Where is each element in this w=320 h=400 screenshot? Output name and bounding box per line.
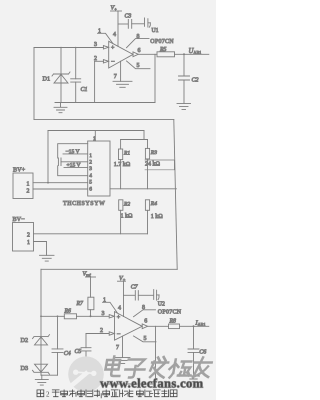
capacitor C6 (193, 326, 195, 349)
wire: top input bus to pin 3 (34, 47, 103, 49)
svg-text:V+: V+ (119, 276, 126, 282)
capacitor C7 (124, 294, 135, 296)
watermark char 2 (zi) (124, 360, 146, 378)
zener diode D3 (35, 364, 48, 372)
svg-text:D3: D3 (21, 365, 29, 372)
node: R7 junction (90, 315, 92, 317)
pin 7 stub (122, 336, 124, 357)
wire: bottom edge of input loop (34, 119, 174, 121)
svg-text:OP07CN: OP07CN (158, 310, 182, 316)
svg-text:R4: R4 (150, 201, 157, 207)
wire: riser to box top (47, 131, 49, 183)
wire: pin 2 input (86, 333, 109, 335)
capacitor C5 (feedback) (85, 334, 87, 348)
caption: figure 2 battery current and voltage detection circuit (37, 390, 177, 399)
wire: left edge of input loop (33, 48, 35, 120)
svg-text:1: 1 (98, 29, 101, 35)
wire: feed to divider R1 R3 (121, 131, 148, 140)
wire: R1 bottom to mid rail (120, 160, 122, 189)
svg-text:2: 2 (46, 391, 50, 399)
wire: left vertical (40, 269, 42, 336)
svg-text:1.7 kΩ: 1.7 kΩ (114, 162, 131, 168)
svg-text:−: − (111, 59, 115, 66)
svg-text:R2: R2 (123, 201, 130, 207)
wire: R4 bottom (147, 210, 149, 234)
svg-text:1 kΩ: 1 kΩ (121, 213, 134, 219)
wire: R7 to input node (90, 310, 92, 317)
svg-text:OP07CN: OP07CN (150, 39, 174, 45)
ground (U1 pin 7) (113, 81, 132, 87)
svg-text:2: 2 (89, 160, 92, 166)
pin 8 stub (134, 310, 156, 317)
watermark char 5 (you) (192, 358, 212, 378)
wire: pin 6 to R8 (148, 325, 169, 327)
svg-text:3: 3 (102, 311, 105, 317)
wire: BV- pin 2 bus (34, 233, 148, 235)
capacitor C1 (75, 48, 77, 79)
node: BV+ tap (47, 182, 49, 184)
connector BV- (13, 223, 34, 252)
pin 4 supply stub (117, 11, 119, 46)
wire: R5 to output terminal (175, 53, 209, 55)
wire: mid rail right of chip (110, 188, 176, 190)
node: D1 tap (60, 47, 62, 49)
wire: R6 to pin 3 (77, 315, 110, 317)
power terminal V+ (118, 280, 126, 282)
inner supply box (58, 144, 88, 176)
wire: ground / feedback bus under D1 C1 (55, 102, 155, 104)
svg-text:THCHSYSYW: THCHSYSYW (63, 201, 105, 207)
svg-text:4: 4 (113, 32, 116, 38)
svg-text:5: 5 (144, 336, 147, 342)
node: C1 tap (75, 47, 77, 49)
svg-text:5: 5 (137, 63, 140, 69)
svg-text:1: 1 (27, 181, 30, 187)
zener diode D1 (60, 48, 62, 103)
ground (D3) (35, 375, 48, 385)
resistor R6 (64, 314, 76, 319)
pin 4 supply stub (123, 281, 125, 316)
resistor R1 (119, 149, 123, 160)
svg-text:+: + (111, 46, 115, 52)
capacitor (supply decoupling) (58, 158, 61, 166)
svg-text:2: 2 (100, 328, 103, 334)
wire: pin 6 to R5 (138, 53, 157, 55)
ADC chip U3 (88, 141, 110, 196)
ground (under C2) (177, 103, 191, 109)
svg-text:6: 6 (89, 186, 92, 192)
output arrow pin 6 (133, 52, 138, 57)
node: output junction (193, 325, 195, 327)
zener diode D2 (33, 335, 50, 339)
svg-text:2: 2 (27, 189, 30, 195)
pin 1 stub (103, 302, 118, 313)
wire: chip top pin (94, 131, 96, 142)
capacitor C4 (57, 316, 59, 349)
svg-text:D1: D1 (43, 76, 51, 83)
connector BV+ (13, 173, 33, 199)
wire: R2 bottom (120, 210, 122, 234)
ground (BV-) (40, 255, 55, 261)
svg-text:www.elecfans.com: www.elecfans.com (100, 377, 204, 391)
svg-text:−: − (117, 331, 121, 338)
op-amp U2 (115, 312, 143, 341)
svg-text:UAB1: UAB1 (189, 48, 202, 55)
svg-text:3: 3 (89, 166, 92, 172)
svg-text:IAB1: IAB1 (195, 319, 206, 326)
svg-text:C2: C2 (192, 77, 199, 83)
svg-text:6: 6 (144, 318, 147, 324)
svg-text:+: + (117, 315, 121, 321)
svg-text:1: 1 (103, 298, 106, 304)
resistor R5 (157, 52, 175, 57)
svg-text:7: 7 (114, 74, 117, 80)
watermark char 3 (fa) (149, 357, 169, 378)
power terminal V+ (111, 10, 122, 12)
resistor R8 (169, 324, 180, 329)
ground (U2 pin 7) (115, 357, 130, 363)
svg-text:R7: R7 (76, 301, 85, 307)
node: pin 3 input arrow (109, 315, 114, 318)
wire: input to R6 (41, 315, 64, 317)
wire: box top edge (48, 130, 144, 132)
svg-text:C5: C5 (75, 349, 82, 355)
pin 7 stub (120, 61, 122, 81)
pin 5 stub (134, 336, 157, 342)
wire: +15V to chip pin 3 (64, 166, 88, 168)
wire: cap to chip pin 2 (61, 161, 88, 163)
wire: feedback from pin 2 (94, 61, 96, 102)
wire: R3 bottom to mid rail (147, 159, 149, 189)
capacitor (supply, unlabeled) (145, 18, 148, 27)
wire: feedback riser to output (154, 54, 156, 102)
svg-text:C6: C6 (199, 350, 206, 356)
svg-text:1 kΩ: 1 kΩ (151, 214, 164, 220)
wire: feedback bottom rail (86, 383, 156, 385)
wire: top rail of bottom section (41, 268, 177, 270)
wire: feedback riser to output (155, 326, 157, 384)
pin 5 stub (127, 61, 151, 69)
svg-text:C3: C3 (125, 14, 132, 20)
svg-text:R8: R8 (169, 319, 177, 325)
svg-text:1: 1 (89, 153, 92, 159)
svg-text:2: 2 (94, 56, 97, 62)
resistor R2 (119, 200, 123, 211)
svg-text:8: 8 (142, 305, 145, 311)
resistor R3 (145, 148, 149, 159)
svg-text:3: 3 (94, 42, 97, 48)
svg-text:R3: R3 (150, 150, 157, 156)
svg-text:BV+: BV+ (13, 166, 26, 173)
node: pin 3 input arrow (103, 46, 108, 49)
op-amp U1 (109, 41, 133, 68)
wire: right vertical bus down to lower sections (174, 120, 177, 270)
wire: BV+ pin 2 to chip pin 6 (33, 188, 88, 190)
wire: -15V to chip pin 1 (63, 153, 88, 155)
svg-text:2: 2 (27, 232, 30, 238)
capacitor C3 (118, 23, 128, 25)
svg-text:U2: U2 (158, 302, 165, 308)
resistor R4 (145, 200, 149, 211)
svg-text:C1: C1 (81, 87, 88, 93)
capacitor C2 (183, 54, 185, 76)
wire: bottom node to C4 (41, 374, 58, 376)
resistor R7 (88, 297, 94, 310)
svg-text:C7: C7 (131, 285, 139, 291)
pin 8 stub (127, 39, 150, 48)
svg-text:R5: R5 (159, 47, 167, 53)
svg-text:R6: R6 (64, 308, 72, 314)
svg-text:BV−: BV− (13, 216, 26, 223)
watermark logo disc (68, 356, 104, 392)
svg-text:D2: D2 (21, 337, 29, 344)
svg-text:4: 4 (89, 173, 92, 179)
svg-text:5: 5 (89, 180, 92, 186)
pin 1 stub (98, 33, 114, 43)
svg-text:R1: R1 (123, 151, 130, 157)
svg-text:4: 4 (118, 305, 121, 311)
svg-text:6: 6 (138, 48, 141, 54)
svg-text:C4: C4 (64, 350, 71, 357)
output arrow pin 6 (142, 324, 147, 329)
svg-text:V+: V+ (111, 6, 118, 12)
svg-text:8: 8 (137, 34, 140, 40)
watermark char 4 (shao) (168, 360, 193, 378)
wire: R8 to output terminal (180, 325, 209, 327)
svg-text:1: 1 (27, 240, 30, 246)
wire: BV+ pin 1 to chip pin 5 (33, 182, 88, 184)
wire: pin 2 input (95, 60, 104, 62)
ground (under C6) (188, 376, 200, 382)
watermark char 1 (dian) (104, 357, 213, 378)
wire: BV- pin 1 to ground (34, 242, 47, 256)
capacitor (supply, unlabeled) (154, 290, 157, 301)
svg-text:7: 7 (116, 345, 119, 351)
ground (under D1) (54, 103, 67, 113)
svg-text:U1: U1 (152, 28, 159, 34)
node: output junction (183, 53, 185, 55)
